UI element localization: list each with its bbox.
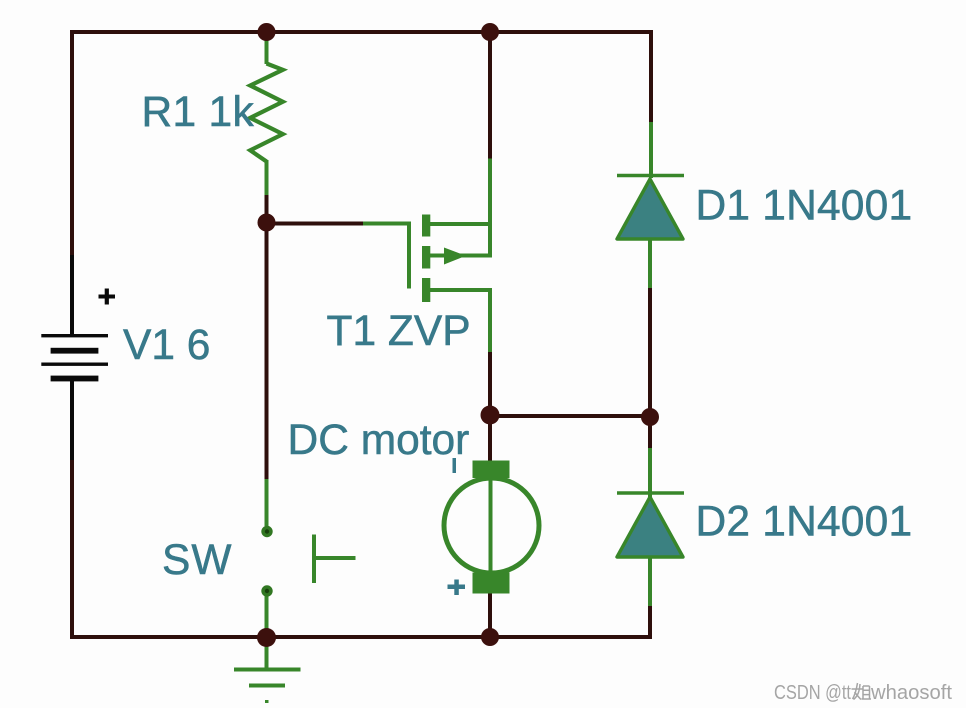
svg-text:V1 6: V1 6 xyxy=(123,322,210,369)
svg-text:D1 1N4001: D1 1N4001 xyxy=(696,183,913,230)
svg-text:D2 1N4001: D2 1N4001 xyxy=(696,499,913,546)
svg-text:T1 ZVP: T1 ZVP xyxy=(327,308,471,355)
svg-text:whaosoft: whaosoft xyxy=(870,681,952,704)
svg-text:DC motor: DC motor xyxy=(288,417,470,464)
svg-text:SW: SW xyxy=(162,537,232,584)
svg-text:R1 1k: R1 1k xyxy=(142,89,255,136)
svg-text:CSDN @tt: CSDN @tt xyxy=(774,681,851,704)
